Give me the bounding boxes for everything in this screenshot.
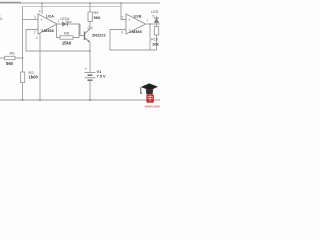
svg-text:LED: LED [151, 10, 159, 14]
svg-text:4: 4 [36, 36, 38, 40]
wire top supply rail [0, 1, 160, 4]
svg-text:U2B: U2B [134, 13, 142, 18]
svg-text:7: 7 [146, 19, 148, 23]
junction U2B output node [149, 23, 151, 25]
junction ground rail at U2A pin4 [39, 99, 41, 101]
junction node A at R6 [22, 57, 24, 59]
wire U2B feedback loop (pin6 to output) [110, 24, 157, 50]
svg-text:7.5 V: 7.5 V [97, 74, 106, 79]
label fragment cut at left edge (R5 value) [0, 13, 2, 72]
svg-text:R6: R6 [9, 51, 15, 56]
svg-text:1k00: 1k00 [29, 75, 39, 80]
svg-text:www.elec: www.elec [145, 104, 161, 109]
svg-text:15k0: 15k0 [62, 41, 72, 46]
wire U2A non-inverting input [23, 19, 39, 21]
op-amp U2B [126, 13, 146, 34]
svg-text:R8: R8 [64, 30, 70, 35]
wire Q4 emitter down to battery [89, 42, 91, 72]
svg-text:1: 1 [0, 68, 1, 72]
svg-text:+: + [128, 17, 131, 22]
junction ground rail at battery [89, 99, 91, 101]
svg-text:8: 8 [39, 10, 41, 14]
svg-text:k0: k0 [0, 17, 2, 21]
transistor Q4 [85, 26, 107, 43]
resistor R2 [20, 70, 38, 100]
svg-text:LM358: LM358 [42, 28, 55, 33]
junction top rail at U2A pin8 [41, 2, 43, 4]
junction battery sense line at emitter [89, 50, 91, 52]
wire U2B output [146, 23, 161, 25]
resistor R8 (parallel with LED4) [57, 24, 80, 46]
svg-text:560: 560 [6, 61, 14, 66]
svg-text:10k: 10k [152, 41, 159, 46]
wire U2A output [57, 23, 80, 25]
junction top rail at U2B input drop [120, 2, 122, 4]
wire base drive to Q4 [80, 24, 84, 36]
svg-text:LM358: LM358 [130, 29, 143, 34]
U2A pin numbers 3,2,8,4,1 [34, 10, 60, 40]
svg-text:5: 5 [153, 15, 155, 19]
svg-text:5: 5 [122, 16, 124, 20]
resistor R9 (collector load) [88, 3, 101, 29]
U2B pin numbers 5,6,7 [121, 16, 148, 35]
resistor R6 [0, 51, 23, 67]
battery V1 7.5V [85, 67, 106, 100]
junction ground rail at R2 [22, 99, 24, 101]
junction top rail at R9 [89, 2, 91, 4]
op-amp U2A [38, 13, 57, 34]
resistor R10 [151, 24, 159, 50]
svg-text:2: 2 [34, 31, 36, 35]
LED LED4 [60, 17, 71, 26]
svg-text:2N2222: 2N2222 [92, 32, 106, 37]
watermark graduation cap logo [140, 83, 158, 94]
svg-text:+: + [40, 17, 43, 22]
svg-text:U2A: U2A [46, 13, 54, 18]
node A vertical (divider / U2A + input net) [22, 7, 24, 73]
wire input bus y6.5 from node A to U2B non-inverting input [23, 6, 122, 8]
svg-text:Red: Red [66, 20, 72, 24]
wire U2B non-inverting input from bus [121, 3, 126, 20]
wire U2A pin8 to top rail [41, 3, 43, 14]
svg-text:560: 560 [94, 15, 101, 20]
watermark red emblem [146, 94, 153, 102]
wire U2A inverting input to battery sense line [26, 30, 90, 52]
svg-text:+: + [85, 67, 88, 72]
svg-text:3: 3 [34, 16, 36, 20]
svg-text:6: 6 [121, 31, 123, 35]
wire U2A pin4 to ground rail [39, 33, 41, 100]
wire ground rail [0, 99, 160, 101]
LED LED5 [151, 10, 159, 24]
